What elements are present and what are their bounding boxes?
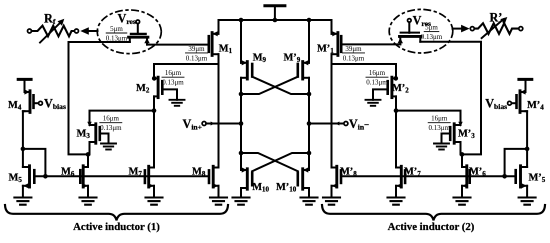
ground under M'5	[519, 198, 536, 205]
transistor M6	[80, 166, 88, 189]
wire cross-coupling M'9 drain to M9 gate	[252, 77, 309, 94]
label Vin-	[349, 117, 369, 132]
label M2	[136, 83, 150, 95]
terminal Vres gate	[136, 20, 140, 24]
svg-text:M’9: M’9	[284, 52, 301, 64]
wire M'6 drain lead	[461, 154, 463, 167]
arrow across Rf (variable)	[40, 19, 64, 43]
svg-text:0.13μm: 0.13μm	[366, 79, 388, 87]
transistor M2	[154, 77, 162, 97]
svg-text:M5: M5	[9, 173, 23, 185]
svg-text:0.13μm: 0.13μm	[162, 79, 184, 87]
node M'9 drain junction	[307, 92, 312, 97]
label M'1	[317, 43, 334, 55]
label Vbias left	[44, 97, 66, 112]
wire gate rail M5-M6-M7-M8	[34, 175, 208, 177]
node small arrow on Vin+ wire	[211, 122, 215, 126]
svg-text:M’8: M’8	[340, 166, 357, 178]
wire M5 source to ground	[22, 186, 24, 198]
node M'3 source / M'6 drain junction	[460, 152, 465, 157]
wire M1 drain down the left inner branch	[218, 54, 220, 167]
ground at M2 gate	[170, 100, 185, 106]
label M3	[77, 129, 91, 141]
svg-text:M’4: M’4	[527, 100, 544, 112]
wire M2 gate to ground	[162, 89, 177, 99]
wire cross-coupling M10 drain to M'10 gate	[241, 153, 298, 171]
wire M'7 source to ground	[395, 186, 397, 198]
transistor M'7	[396, 166, 405, 188]
ground at M3 gate	[101, 144, 116, 150]
node Vin- junction	[307, 121, 312, 126]
svg-text:M’5: M’5	[529, 173, 546, 185]
node gate rail junction at M5 tie	[43, 174, 48, 179]
terminal Vin+	[202, 122, 206, 126]
value label 16um/0.13um of M'3	[428, 115, 450, 132]
svg-text:16μm: 16μm	[103, 115, 120, 123]
value label 39um/0.13um of M'1	[343, 45, 365, 62]
label M4	[8, 100, 22, 112]
label M9	[253, 52, 267, 64]
svg-text:Active inductor (2): Active inductor (2)	[388, 221, 475, 233]
label M1	[219, 43, 233, 55]
svg-text:Vin+: Vin+	[183, 117, 202, 132]
svg-text:5μm: 5μm	[110, 25, 123, 33]
transistor M1	[209, 31, 219, 55]
transistor V'res (horizontal)	[398, 33, 421, 45]
label M'8	[340, 166, 357, 178]
label M'6	[469, 166, 486, 178]
ground under M10	[233, 198, 250, 205]
transistor M'1	[332, 31, 342, 55]
svg-text:M10: M10	[252, 182, 269, 194]
arrow annotation ellipse to Rf	[80, 27, 97, 35]
svg-text:Vin−: Vin−	[349, 117, 369, 132]
label R'f	[490, 10, 506, 25]
ground under M8	[210, 198, 227, 205]
transistor M'3	[450, 122, 463, 143]
wire V'res gate lead	[408, 22, 410, 33]
svg-text:M3: M3	[77, 129, 91, 141]
wire M4 gate lead	[34, 102, 39, 104]
wire VDD rail	[219, 19, 332, 21]
arrow across R'f (variable)	[482, 17, 508, 38]
wire M5 drain-gate tie	[23, 149, 46, 176]
label V'res	[413, 14, 431, 29]
svg-text:39μm: 39μm	[188, 45, 205, 53]
svg-text:0.13μm: 0.13μm	[100, 124, 122, 132]
svg-text:M4: M4	[8, 100, 22, 112]
terminal Vbias left	[39, 101, 43, 105]
label M'10	[276, 182, 297, 194]
value label 5um/0.13um of Vres	[106, 25, 128, 42]
ground under M5	[14, 198, 31, 205]
svg-text:Vres: Vres	[118, 12, 136, 27]
wire M'3 drain wire	[396, 111, 461, 125]
wire M'1 source lead	[331, 20, 333, 34]
wire Vres gate lead	[137, 24, 139, 34]
transistor M7	[145, 166, 154, 188]
transistor M'2	[388, 77, 396, 97]
label Active inductor (2)	[388, 221, 475, 233]
label M'2	[392, 83, 409, 95]
node M3 drain junction	[152, 108, 157, 113]
wire M'10 drain lead	[308, 153, 310, 170]
svg-text:0.13μm: 0.13μm	[343, 54, 365, 62]
wire M6 drain lead	[87, 154, 89, 167]
wire M3 drain wire	[90, 111, 155, 125]
node Vin+ junction	[239, 121, 244, 126]
svg-text:M8: M8	[192, 166, 206, 178]
wire M9 drain lead	[240, 78, 242, 94]
wire M9 drain down to Vin+ node	[240, 94, 242, 153]
transistor M'8	[332, 166, 342, 188]
value label 16um/0.13um of M3	[100, 115, 122, 132]
wire M'4 source lead	[525, 79, 527, 92]
svg-text:16μm: 16μm	[165, 69, 182, 77]
transistor M'10	[298, 167, 309, 189]
ellipse dash-dot around Vres transistor	[97, 10, 161, 54]
wire M8 source to ground	[218, 186, 220, 198]
wire M1 source lead	[218, 20, 220, 34]
value label 16um/0.13um of M'2	[366, 69, 388, 86]
wire M4 drain down to M5	[23, 111, 25, 167]
ellipse dash-dot around V'res transistor	[389, 9, 453, 53]
transistor M'9	[298, 60, 309, 79]
ground under M7	[146, 198, 163, 205]
wire M'3 gate to ground	[442, 134, 451, 144]
transistor M5	[23, 166, 34, 189]
label M8	[192, 166, 206, 178]
wire cross-coupling M9 drain to M'9 gate	[241, 77, 298, 94]
node M2 source dot	[152, 76, 157, 81]
svg-text:39μm: 39μm	[345, 45, 362, 53]
svg-text:R’f: R’f	[490, 10, 506, 25]
wire M6 source to ground	[87, 186, 89, 198]
wire M9 source lead from rail	[240, 20, 242, 63]
wire M1 gate to Vres transistor	[147, 44, 209, 46]
svg-text:16μm: 16μm	[369, 69, 386, 77]
svg-text:Active inductor (1): Active inductor (1)	[73, 221, 160, 233]
ground under M'7	[388, 198, 405, 205]
resistor Rf	[28, 26, 79, 37]
wire M'9 drain lead	[308, 78, 310, 94]
svg-text:M1: M1	[219, 43, 233, 55]
transistor M'6	[462, 166, 470, 189]
wire M'1 drain tap to M'2 top	[332, 64, 397, 78]
brace active inductor 1	[5, 205, 228, 220]
svg-text:M7: M7	[129, 166, 143, 178]
wire M'6 source to ground	[461, 186, 463, 198]
wire M'9 drain down to Vin- node	[308, 94, 310, 153]
svg-text:0.13μm: 0.13μm	[421, 33, 443, 41]
resistor R'f	[470, 23, 523, 34]
svg-text:M’1: M’1	[317, 43, 334, 55]
label Vres	[118, 12, 136, 27]
svg-text:Vbias: Vbias	[44, 97, 66, 112]
arrow annotation ellipse to R'f	[453, 25, 470, 33]
label M'4	[527, 100, 544, 112]
wire R'f/V'res feedback right branch	[420, 42, 481, 155]
wire Vin+ input	[206, 123, 241, 125]
svg-text:M’10: M’10	[276, 182, 297, 194]
label Vbias right	[485, 97, 507, 112]
wire M10 source to ground	[240, 188, 242, 198]
svg-text:M2: M2	[136, 83, 150, 95]
terminal Vbias right	[508, 101, 512, 105]
transistor M3	[87, 122, 100, 143]
transistor M9	[241, 60, 252, 79]
ground under M6	[80, 198, 97, 205]
wire M3 source lead	[89, 142, 91, 154]
wire M1 drain tap to M2 top	[154, 64, 219, 78]
wire M'10 source to ground	[308, 188, 310, 198]
node M9 drain junction	[239, 92, 244, 97]
label Vin+	[183, 117, 202, 132]
transistor M'4	[517, 89, 526, 112]
wire M'9 source lead from rail	[308, 20, 310, 63]
node M'4/M'5 junction	[525, 147, 530, 152]
svg-text:5μm: 5μm	[425, 24, 438, 32]
power VDD symbol	[265, 6, 285, 20]
wire M'2 drain down to M'7	[395, 96, 397, 167]
svg-text:Vbias: Vbias	[485, 97, 507, 112]
wire gate rail M'5-M'6-M'7-M'8	[341, 175, 515, 177]
ground under M'6	[454, 198, 471, 205]
ground under M'8	[323, 198, 340, 205]
transistor M10	[241, 167, 252, 189]
wire Vin- input	[309, 123, 344, 125]
svg-text:M’6: M’6	[469, 166, 486, 178]
svg-text:M’7: M’7	[404, 166, 421, 178]
power VDD at M4	[18, 78, 31, 81]
terminal Vin-	[344, 122, 348, 126]
transistor M'5	[516, 166, 527, 189]
label M7	[129, 166, 143, 178]
value label 5um/0.13um of V'res	[421, 24, 443, 41]
label M'7	[404, 166, 421, 178]
node M10 gate-drain cross junction	[239, 151, 244, 156]
svg-text:M’2: M’2	[392, 83, 409, 95]
node M3 source / M6 drain junction	[86, 152, 91, 157]
value label 16um/0.13um of M2	[162, 69, 184, 86]
wire M'8 source to ground	[331, 186, 333, 198]
svg-text:Rf: Rf	[44, 12, 56, 27]
wire M'4 gate lead	[511, 102, 516, 104]
wire M'1 drain down the right inner branch	[331, 54, 333, 167]
label M'9	[284, 52, 301, 64]
wire M2 drain down to M7	[153, 96, 155, 167]
label M'3	[458, 129, 475, 141]
wire M10 drain lead	[240, 153, 242, 170]
node gate rail junction at M'5 tie	[502, 174, 507, 179]
svg-text:0.13μm: 0.13μm	[428, 124, 450, 132]
svg-text:16μm: 16μm	[431, 115, 448, 123]
wire Rf/Vres feedback left branch	[69, 42, 130, 154]
node M4/M5 junction	[21, 147, 26, 152]
label Active inductor (1)	[73, 221, 160, 233]
node VDD-rail junction dots	[239, 18, 312, 23]
wire M3 gate to ground	[100, 134, 109, 144]
transistor Vres (horizontal)	[129, 34, 150, 45]
svg-text:0.13μm: 0.13μm	[186, 54, 208, 62]
wire M7 source to ground	[153, 186, 155, 198]
value label 39um/0.13um of M1	[186, 45, 208, 62]
wire M'2 gate to ground	[373, 89, 388, 99]
wire M'4 drain down to M'5	[526, 111, 528, 167]
wire M'3 source lead	[460, 142, 462, 154]
label M'5	[529, 173, 546, 185]
power VDD at M'4	[519, 78, 532, 81]
ground under M'10	[301, 198, 318, 205]
ground at M'2 gate	[366, 100, 381, 106]
svg-text:M6: M6	[61, 166, 75, 178]
label M10	[252, 182, 269, 194]
transistor M4	[24, 89, 33, 112]
ground at M'3 gate	[434, 144, 449, 150]
node M'10 gate-drain cross junction	[307, 151, 312, 156]
svg-text:M’3: M’3	[458, 129, 475, 141]
wire M'1 gate to V'res transistor	[341, 43, 400, 45]
label M5	[9, 173, 23, 185]
wire M'5 drain-gate tie	[505, 149, 527, 176]
terminal V'res gate	[408, 19, 412, 23]
wire M'5 source to ground	[526, 186, 528, 198]
node small arrow on Vin- wire	[335, 122, 339, 126]
node M'3 drain junction	[394, 108, 399, 113]
svg-text:M9: M9	[253, 52, 267, 64]
label M6	[61, 166, 75, 178]
brace active inductor 2	[322, 205, 545, 220]
wire M4 source lead	[24, 79, 26, 92]
node M'2 source dot	[394, 76, 399, 81]
transistor M8	[209, 166, 219, 188]
wire cross-coupling M'10 drain to M10 gate	[252, 153, 309, 171]
label Rf	[44, 12, 56, 27]
